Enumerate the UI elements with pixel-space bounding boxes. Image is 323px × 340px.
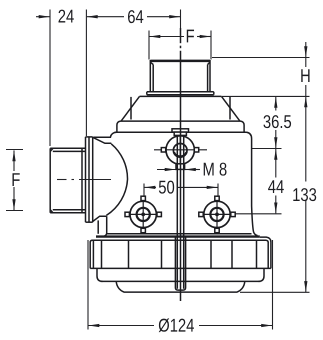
dimension 50 line left <box>144 186 156 188</box>
upper bolt cross vertical <box>179 136 181 166</box>
upper bolt top cap rect2 <box>174 132 186 135</box>
50 extension right <box>217 184 219 199</box>
H/133 dimension line segment under arrow <box>305 58 307 68</box>
rod sleeve and cap at bottom <box>175 237 185 290</box>
lower left bolt ticks <box>125 196 161 233</box>
H dimension upper arrow <box>305 42 307 57</box>
bowl flange right step <box>260 237 271 242</box>
extension line y=57.5 for H <box>212 57 310 59</box>
label 36.5 <box>263 115 291 128</box>
dimension 24 arrow <box>36 16 50 18</box>
label D124 <box>159 318 194 332</box>
upper bolt tick right <box>194 148 198 152</box>
dimension 36.5 line upper <box>275 97 277 111</box>
bowl bottom <box>116 281 245 292</box>
label 50 <box>159 181 174 194</box>
label F top <box>187 30 194 43</box>
extension line x=272.5 bottom right <box>272 240 274 330</box>
dimension D124 line right <box>199 325 272 327</box>
H/133 line between H text and 96 <box>305 85 307 182</box>
label 44 <box>268 180 284 193</box>
ring nut bottom edge <box>90 267 271 269</box>
label 64 <box>128 10 143 23</box>
shoulder cone <box>121 96 240 121</box>
side port tube <box>50 148 85 213</box>
lower right bolt inner circle <box>210 208 223 221</box>
label 133 <box>293 188 316 201</box>
sphere chamber bottom chamfer <box>93 216 107 221</box>
lower left bolt center dot <box>141 213 145 217</box>
central rod right line <box>183 136 185 289</box>
dimension 44 line lower <box>275 196 277 214</box>
F left extension tick top <box>6 149 23 151</box>
extension line x=88 bottom left <box>87 240 89 330</box>
extension line x=149 (port left) <box>148 31 150 60</box>
ring nut right edge <box>270 242 272 269</box>
side port flange <box>86 137 93 222</box>
lower left bolt outer circle <box>130 201 156 227</box>
body top plate1 <box>117 121 244 132</box>
dimension 50 line right <box>177 186 218 188</box>
upper bolt tick left <box>161 148 165 152</box>
body right edge lower <box>252 206 258 236</box>
ring nut right inner <box>267 242 269 268</box>
body bottom edge thin line <box>107 233 252 235</box>
body top plate2 <box>93 132 251 206</box>
top port outline <box>150 60 210 92</box>
sphere chamber arc <box>106 144 127 216</box>
extension line y=96.4 right <box>222 95 310 97</box>
ring nut ribs <box>102 240 257 268</box>
dimension F top line right <box>197 36 211 38</box>
upper bolt boss circle <box>166 136 194 164</box>
M8 leader left arrow <box>157 169 176 171</box>
dimension F left line lower <box>13 187 15 210</box>
extension line x=86.4 (flange face) <box>85 10 87 137</box>
bowl flange thick line <box>96 235 260 237</box>
bowl rim line <box>101 280 261 282</box>
dimension F top line left <box>149 36 184 38</box>
upper bolt nut below <box>176 164 185 170</box>
bowl lip left <box>97 268 103 281</box>
50 extension left <box>143 184 145 199</box>
dimension F left line upper <box>13 150 15 171</box>
ring nut left inner <box>92 240 94 268</box>
sphere boss below <box>98 216 107 236</box>
upper bolt inner circle thick lower arc <box>174 152 187 156</box>
M8 leader right arrow <box>185 169 200 171</box>
upper bolt cross horizontal <box>154 149 207 151</box>
extension line y=148.5 <box>252 148 282 150</box>
lower left bolt inner circle <box>137 208 150 221</box>
lower left bolt cross vertical <box>142 197 144 233</box>
label 24 <box>59 10 74 23</box>
dimension 64 line left part <box>87 16 124 18</box>
horizontal centerline side port <box>57 179 67 181</box>
F left extension tick bottom <box>6 210 23 212</box>
ring nut top edge <box>90 240 268 242</box>
bowl lip right <box>259 268 265 281</box>
lower right bolt center dot <box>215 213 219 217</box>
sphere chamber top chamfer <box>93 138 111 144</box>
lower left bolt cross horizontal <box>126 213 162 215</box>
ring nut left edge <box>89 241 91 268</box>
upper bolt inner circle <box>173 144 187 158</box>
extension line x=180.5 top <box>180 10 182 29</box>
label H <box>301 69 309 82</box>
lower right bolt cross horizontal <box>199 213 235 215</box>
upper bolt top cap rect1 <box>172 129 189 132</box>
lower right bolt ticks <box>199 196 235 233</box>
central rod left line <box>176 136 178 289</box>
lower right bolt cross vertical <box>216 197 218 233</box>
dimension 64 line right part <box>147 16 180 18</box>
extension line x=211 (port right) <box>210 31 212 60</box>
extension line y=292.4 bowl bottom <box>240 291 310 293</box>
lower right bolt outer circle <box>204 201 230 227</box>
extension line y=213.5 <box>232 213 282 215</box>
dimension 36.5 line lower <box>275 130 277 148</box>
vertical centerline <box>180 28 182 43</box>
label F left <box>12 173 19 186</box>
dimension 44 line upper <box>275 149 277 178</box>
133 arrow up at y=96 <box>304 96 307 107</box>
133 line below text <box>305 200 307 293</box>
top port collar <box>140 92 222 97</box>
extension line x=50 (port face) <box>49 10 51 147</box>
dimension D124 line left <box>88 325 154 327</box>
label M 8 <box>204 163 227 176</box>
